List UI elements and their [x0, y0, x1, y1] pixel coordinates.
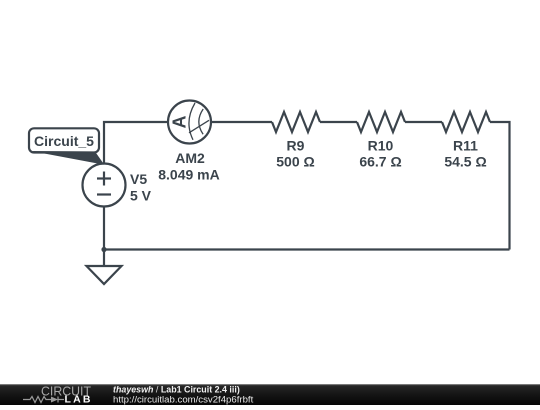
svg-text:thayeswh / Lab1 Circuit 2.4 ii: thayeswh / Lab1 Circuit 2.4 iii) [113, 384, 240, 394]
svg-text:66.7 Ω: 66.7 Ω [359, 154, 401, 170]
wire source bottom to node [103, 207, 105, 250]
svg-text:AM2: AM2 [175, 150, 205, 166]
wire R10 to R11 [405, 121, 442, 123]
svg-text:R10: R10 [368, 138, 394, 154]
svg-text:Circuit_5: Circuit_5 [34, 133, 94, 149]
svg-text:500 Ω: 500 Ω [276, 154, 314, 170]
svg-text:http://circuitlab.com/csv2f4p6: http://circuitlab.com/csv2f4p6frbft [113, 394, 254, 405]
svg-text:R9: R9 [287, 138, 305, 154]
resistor R10 [357, 112, 405, 132]
voltage source V5 [83, 164, 126, 207]
wire top-left segment [104, 122, 168, 164]
wire bottom [104, 248, 510, 250]
wire R11 to right corner and down [490, 122, 510, 250]
svg-text:V5: V5 [130, 171, 147, 187]
svg-text:A: A [169, 116, 189, 129]
svg-text:8.049 mA: 8.049 mA [158, 167, 219, 183]
svg-text:R11: R11 [453, 138, 478, 154]
logo wire doodle with resistor and diode [23, 397, 64, 403]
ground [87, 266, 122, 284]
wire R9 to R10 [320, 121, 357, 123]
resistor R9 [272, 112, 320, 132]
svg-text:54.5 Ω: 54.5 Ω [444, 154, 486, 170]
resistor R11 [442, 112, 490, 132]
wire ground stub [103, 250, 105, 267]
svg-text:LAB: LAB [65, 394, 91, 405]
wire ammeter to R9 [211, 121, 272, 123]
svg-text:5 V: 5 V [130, 188, 152, 204]
node junction dot [101, 247, 106, 252]
ammeter AM2 [168, 101, 211, 144]
node label Circuit_5 callout tail [31, 151, 104, 165]
node label Circuit_5 box [29, 128, 99, 152]
